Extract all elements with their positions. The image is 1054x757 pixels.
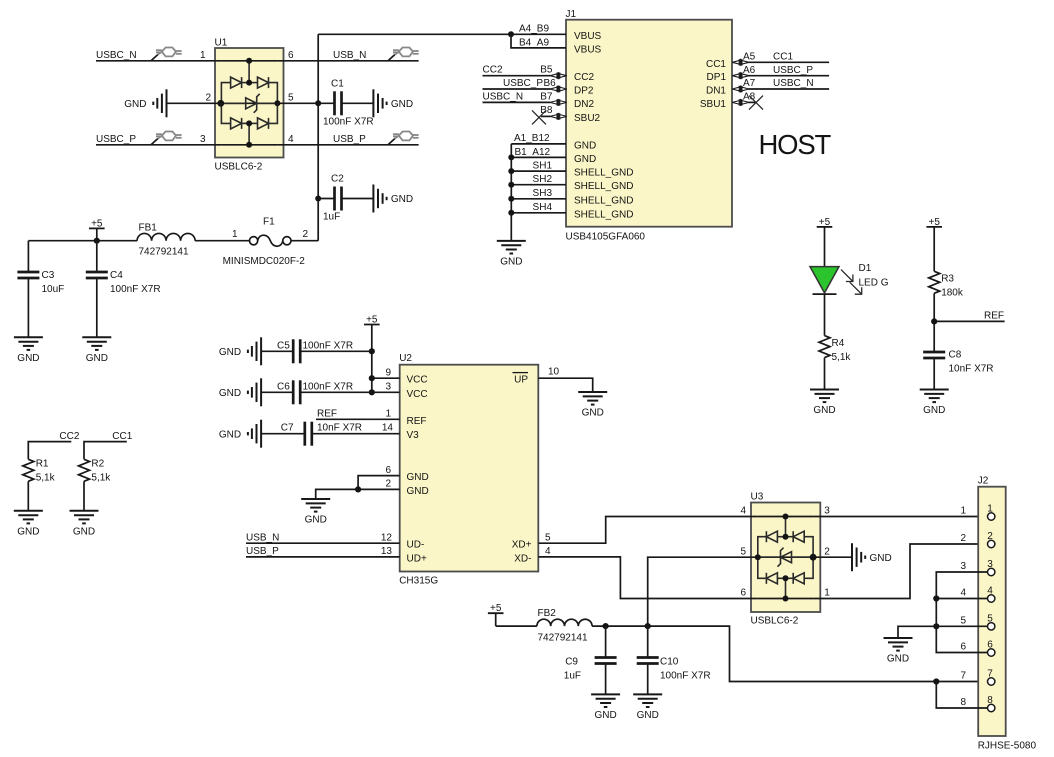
junction dots on filter rail [603, 623, 651, 629]
svg-text:2: 2 [303, 229, 309, 240]
svg-text:UP: UP [514, 375, 528, 386]
U3 diode top-left [766, 531, 777, 542]
svg-text:USB_N: USB_N [333, 50, 366, 61]
ground at C8 [920, 390, 949, 417]
svg-text:5,1k: 5,1k [832, 352, 852, 363]
svg-text:B1_A12: B1_A12 [515, 147, 551, 158]
capacitor C10 [637, 626, 711, 694]
J2 outer pin numbers [960, 506, 966, 709]
svg-text:4: 4 [987, 586, 993, 597]
svg-text:6: 6 [385, 465, 391, 476]
wire U3 pin 5 to filter node [648, 557, 758, 626]
wire FB1 to F1 [195, 240, 249, 242]
ground at U2 GND pins [301, 499, 330, 526]
wire SH4 to J1 [511, 202, 566, 213]
svg-text:1uF: 1uF [564, 670, 581, 681]
twisted-pair symbol on USB_P [388, 132, 419, 145]
ic U2 body [399, 353, 538, 587]
U1 internal top rail wire [221, 60, 277, 62]
svg-text:XD+: XD+ [512, 540, 532, 551]
wire SH1 to J1 [511, 160, 566, 171]
svg-text:3: 3 [960, 561, 966, 572]
wire net USBC_P to U1 pin 3 [96, 134, 221, 145]
wire net REF to U2 pin 1 [316, 409, 400, 420]
svg-text:SH3: SH3 [533, 188, 553, 199]
svg-text:R2: R2 [91, 459, 104, 470]
svg-text:CC2: CC2 [59, 431, 79, 442]
wire SH2 to J1 [511, 174, 566, 185]
svg-text:A1_B12: A1_B12 [514, 133, 550, 144]
wire U1 pin 5 to node [277, 93, 318, 104]
svg-text:6: 6 [987, 640, 993, 651]
capacitor C1 [318, 79, 373, 128]
pin arrow B6 [550, 86, 567, 93]
no-connect stub J1 pin B8 [540, 105, 553, 116]
svg-text:CH315G: CH315G [399, 576, 438, 587]
wire net CC1 from J1 pin A5 [743, 52, 829, 63]
svg-text:C4: C4 [110, 270, 123, 281]
svg-text:3: 3 [200, 134, 206, 145]
wire U3 pin 2 to ground [813, 556, 852, 558]
svg-text:CC1: CC1 [773, 52, 793, 63]
wire net A4_B9 to J1 VBUS pin 1 [318, 24, 566, 35]
svg-text:8: 8 [960, 697, 966, 708]
svg-text:10: 10 [548, 367, 560, 378]
resistor R4 [819, 336, 851, 390]
pin arrow B8 [550, 113, 567, 120]
svg-text:VCC: VCC [407, 375, 428, 386]
svg-text:A4_B9: A4_B9 [519, 24, 549, 35]
svg-text:6: 6 [740, 588, 746, 599]
svg-text:742792141: 742792141 [139, 247, 189, 258]
svg-text:742792141: 742792141 [538, 633, 588, 644]
svg-text:USBC_N: USBC_N [96, 50, 137, 61]
svg-text:C7: C7 [281, 423, 294, 434]
wire +5 to U2 pin 3 [372, 382, 400, 393]
svg-text:1: 1 [200, 50, 206, 61]
no-connect cross A8 [749, 96, 763, 110]
svg-text:100nF X7R: 100nF X7R [323, 117, 374, 128]
svg-text:5: 5 [740, 546, 746, 557]
svg-text:DN1: DN1 [706, 86, 726, 97]
svg-text:VBUS: VBUS [574, 44, 602, 55]
svg-text:CC1: CC1 [112, 431, 132, 442]
supply +5 at R3 [926, 217, 942, 271]
pin arrow A5 [732, 59, 749, 66]
svg-text:C8: C8 [949, 350, 962, 361]
supply +5 at input rail [89, 218, 105, 241]
no-connect stub J1 pin A8 [743, 92, 756, 103]
svg-text:6: 6 [960, 642, 966, 653]
U1 zener diode [246, 94, 260, 113]
svg-text:B4_A9: B4_A9 [519, 37, 549, 48]
U3 pin numbers [740, 506, 830, 599]
twisted-pair symbol on USB_N [388, 48, 419, 61]
svg-text:USBLC6-2: USBLC6-2 [751, 616, 799, 627]
shield bus vertical wire [510, 144, 512, 240]
U3 internal mid rail wire [758, 556, 813, 558]
svg-text:USB_P: USB_P [333, 134, 366, 145]
svg-text:UD+: UD+ [407, 553, 427, 564]
svg-text:2: 2 [960, 533, 966, 544]
U1 diode bottom-left [231, 118, 242, 129]
svg-text:13: 13 [381, 546, 393, 557]
svg-text:R3: R3 [941, 274, 954, 285]
svg-text:6: 6 [288, 50, 294, 61]
junction dot rail [94, 238, 100, 244]
svg-text:USBLC6-2: USBLC6-2 [215, 162, 263, 173]
J1 right pin names [700, 59, 727, 110]
junction dots J2 bus [933, 595, 939, 684]
svg-text:5: 5 [987, 613, 993, 624]
svg-text:3: 3 [824, 506, 830, 517]
svg-text:HOST: HOST [759, 129, 832, 160]
svg-text:4: 4 [960, 588, 966, 599]
ferrite bead FB2 742792141 [537, 608, 592, 643]
LED D1 LED G [810, 263, 889, 294]
ic J1 body [566, 9, 733, 243]
junction dot C1 node [315, 100, 321, 106]
pin arrow B7 [550, 99, 567, 106]
ic U3 body [751, 492, 821, 627]
wire +5 input rail [28, 240, 137, 242]
ground at U3 pin 2 [852, 543, 892, 571]
svg-text:USB_P: USB_P [246, 546, 279, 557]
supply +5 at D1 [817, 217, 833, 267]
svg-text:SHELL_GND: SHELL_GND [574, 168, 633, 179]
wire net USB_N to U2 pin 12 [246, 532, 400, 543]
svg-text:DP2: DP2 [574, 86, 594, 97]
svg-text:1: 1 [824, 588, 830, 599]
supply +5 at U2 [364, 315, 380, 393]
ground at R2 [70, 511, 99, 538]
svg-text:2: 2 [205, 93, 211, 104]
svg-text:SH2: SH2 [533, 174, 553, 185]
pin arrow B5 [550, 72, 567, 79]
svg-text:7: 7 [987, 669, 993, 680]
svg-text:B5: B5 [540, 65, 553, 76]
U1 internal mid rail wire [221, 102, 277, 104]
svg-text:SBU2: SBU2 [574, 113, 601, 124]
svg-text:RJHSE-5080: RJHSE-5080 [978, 741, 1037, 752]
svg-text:5: 5 [545, 532, 551, 543]
capacitor C2 [318, 174, 373, 223]
svg-text:CC2: CC2 [483, 65, 503, 76]
junction dot A4_B9 [508, 31, 514, 37]
no-connect cross B8 [532, 110, 546, 124]
wire net USBC_N to U1 pin 1 [96, 50, 221, 61]
svg-text:UD-: UD- [407, 540, 425, 551]
node VBUS vertical wire [317, 34, 319, 240]
capacitor C5 [219, 337, 372, 365]
capacitor C3 [17, 241, 64, 338]
svg-text:USBC_N: USBC_N [773, 78, 814, 89]
connector J2 body [978, 476, 1037, 752]
svg-text:10nF X7R: 10nF X7R [317, 423, 362, 434]
svg-text:1: 1 [232, 229, 238, 240]
svg-text:3: 3 [987, 559, 993, 570]
wire +5 to U2 pin 9 [372, 367, 400, 378]
svg-text:U1: U1 [215, 38, 228, 49]
svg-text:SH1: SH1 [533, 160, 553, 171]
svg-text:VCC: VCC [407, 389, 428, 400]
ground at U1 pin 2 [124, 89, 221, 117]
twisted-pair symbol on USBC_P [151, 132, 182, 145]
svg-text:F1: F1 [263, 216, 275, 227]
svg-text:9: 9 [385, 367, 391, 378]
pin arrow A8 [732, 99, 749, 106]
pin arrow A6 [732, 72, 749, 79]
svg-text:GND: GND [574, 140, 596, 151]
svg-text:5,1k: 5,1k [91, 473, 111, 484]
wire net USBC_N to J1 pin B7 [483, 91, 553, 102]
svg-text:14: 14 [382, 423, 394, 434]
wire D1 to R4 [824, 294, 826, 336]
resistor R3 [929, 271, 964, 352]
svg-text:SBU1: SBU1 [700, 99, 727, 110]
svg-text:SHELL_GND: SHELL_GND [574, 181, 633, 192]
svg-text:REF: REF [407, 416, 427, 427]
U1 diode top-right [258, 77, 269, 88]
wire net REF from R3/C8 node [934, 311, 1004, 322]
svg-text:DN2: DN2 [574, 99, 594, 110]
U3 junction dots [755, 514, 817, 602]
svg-text:12: 12 [381, 532, 393, 543]
svg-text:LED G: LED G [859, 278, 889, 289]
wire +5 to FB2 [496, 625, 537, 627]
wire net USB_P to U2 pin 13 [246, 546, 400, 557]
svg-text:REF: REF [984, 311, 1004, 322]
svg-text:1: 1 [385, 409, 391, 420]
svg-text:1: 1 [960, 506, 966, 517]
svg-text:U2: U2 [399, 353, 412, 364]
svg-text:4: 4 [288, 134, 294, 145]
svg-text:C9: C9 [565, 656, 578, 667]
wire SH3 to J1 [511, 188, 566, 199]
svg-text:XD-: XD- [514, 553, 531, 564]
ground at J2 bus [884, 638, 913, 665]
U2 right pin names [512, 373, 532, 565]
svg-text:CC2: CC2 [574, 72, 594, 83]
svg-text:USBC_P: USBC_P [773, 65, 813, 76]
resistor R1 with CC2 stub [23, 431, 80, 511]
svg-text:100nF X7R: 100nF X7R [660, 670, 711, 681]
svg-text:7: 7 [960, 671, 966, 682]
wire net USBC_P from J1 pin A6 [743, 65, 829, 76]
wire U2 pin 10 to ground [538, 367, 592, 392]
svg-text:180k: 180k [941, 288, 964, 299]
svg-text:C3: C3 [42, 270, 55, 281]
svg-text:GND: GND [407, 486, 429, 497]
svg-text:8: 8 [987, 695, 993, 706]
svg-text:5: 5 [960, 615, 966, 626]
J2 pins 3-6 bus wires [936, 572, 987, 653]
wire J2 pin 8 [936, 682, 987, 709]
wire net USBC_P to J1 pin B6 [483, 78, 557, 89]
svg-text:CC1: CC1 [706, 59, 726, 70]
svg-text:2: 2 [987, 531, 993, 542]
U1 internal bottom rail wire [221, 144, 277, 146]
ic U1 body [215, 38, 284, 173]
svg-text:SHELL_GND: SHELL_GND [574, 209, 633, 220]
ground at U2 pin 10 [578, 392, 607, 419]
U3 diode bottom-right [793, 573, 804, 584]
wire net CC2 to J1 pin B5 [483, 65, 553, 76]
svg-text:100nF X7R: 100nF X7R [110, 284, 161, 295]
shield bus junction dots [508, 154, 514, 215]
wire F1 to VBUS node [291, 240, 318, 242]
svg-text:USBC_P: USBC_P [96, 134, 136, 145]
svg-text:MINISMDC020F-2: MINISMDC020F-2 [223, 256, 306, 267]
ground at C3 [14, 337, 43, 364]
wire U2 XD- pin 4 to U3 pin 6 row [538, 546, 758, 598]
J2 pin circles [988, 513, 995, 712]
svg-text:SHELL_GND: SHELL_GND [574, 195, 633, 206]
capacitor C6 [219, 378, 372, 406]
wire net B4_A9 to J1 VBUS pin 2 [511, 34, 566, 48]
resistor R2 with CC1 stub [79, 431, 133, 511]
ground at R4 [810, 390, 839, 417]
junction dots +5 vertical [369, 348, 375, 395]
wire net USBC_N from J1 pin A7 [743, 78, 829, 89]
svg-text:REF: REF [317, 409, 337, 420]
svg-text:SH4: SH4 [533, 202, 553, 213]
svg-text:U3: U3 [751, 492, 764, 503]
J1 left pin names [574, 31, 633, 221]
svg-text:4: 4 [545, 546, 551, 557]
wire U3 pin 3 to J2 pin 1 [813, 516, 988, 518]
svg-text:10nF X7R: 10nF X7R [949, 364, 994, 375]
svg-text:GND: GND [407, 472, 429, 483]
U1 internal frame [221, 61, 277, 145]
capacitor C4 [86, 241, 161, 338]
svg-text:100nF X7R: 100nF X7R [303, 340, 354, 351]
svg-text:R1: R1 [36, 459, 49, 470]
svg-text:VBUS: VBUS [574, 31, 602, 42]
ground at R1 [14, 511, 43, 538]
wire J2 bus to ground [898, 626, 936, 638]
wire U3 pin 1 to J2 pin 2 [813, 544, 988, 599]
U3 internal bottom rail wire [758, 598, 813, 600]
capacitor C8 [923, 350, 993, 390]
svg-text:C10: C10 [660, 656, 679, 667]
svg-text:J2: J2 [978, 476, 989, 487]
fuse F1 MINISMDC020F-2 [223, 216, 309, 267]
svg-text:FB2: FB2 [538, 608, 557, 619]
svg-text:2: 2 [385, 479, 391, 490]
ground at C10 [633, 694, 662, 721]
ferrite bead FB1 742792141 [137, 223, 195, 258]
svg-text:1uF: 1uF [323, 212, 340, 223]
U3 diode top-right [793, 531, 804, 542]
svg-text:USBC_N: USBC_N [483, 91, 524, 102]
wire net USB_N from U1 pin 6 [277, 50, 418, 61]
U2 left pin names [407, 375, 429, 565]
svg-text:5: 5 [288, 93, 294, 104]
capacitor C7 to U2 pin 14 [219, 420, 400, 448]
U1 junction dots [217, 58, 280, 148]
U3 zener diode [778, 548, 792, 567]
svg-text:C6: C6 [277, 381, 290, 392]
U3 diode bottom-left [766, 573, 777, 584]
ground at C1 [373, 89, 413, 117]
svg-text:J1: J1 [566, 9, 577, 20]
LED emission arrows [841, 270, 862, 295]
svg-text:4: 4 [740, 506, 746, 517]
junction dot REF node [931, 318, 937, 324]
svg-text:D1: D1 [859, 263, 872, 274]
wire net USB_P from U1 pin 4 [277, 134, 418, 145]
J2 inner pin numbers [987, 504, 993, 707]
U1 diode top-left [231, 77, 242, 88]
wire U2 pin 2 GND [316, 479, 400, 499]
ground at C4 [82, 337, 111, 364]
svg-text:USB4105GFA060: USB4105GFA060 [566, 232, 646, 243]
svg-text:DP1: DP1 [707, 72, 727, 83]
capacitor C9 [564, 626, 617, 694]
svg-text:C2: C2 [331, 174, 344, 185]
supply +5 at FB2 [488, 603, 504, 626]
svg-text:V3: V3 [407, 430, 420, 441]
U3 internal top rail wire [758, 516, 813, 518]
svg-text:R4: R4 [832, 338, 845, 349]
svg-text:B7: B7 [540, 91, 553, 102]
svg-text:10uF: 10uF [42, 284, 65, 295]
svg-text:FB1: FB1 [139, 223, 158, 234]
pin arrow A7 [732, 86, 749, 93]
junction dot C2 node [315, 196, 321, 202]
svg-text:C1: C1 [331, 79, 344, 90]
svg-text:GND: GND [574, 154, 596, 165]
svg-text:3: 3 [385, 382, 391, 393]
ground at shield bus [497, 241, 526, 268]
svg-text:USB_N: USB_N [246, 532, 279, 543]
U3 internal frame [758, 517, 813, 599]
svg-text:1: 1 [987, 504, 993, 515]
svg-text:2: 2 [824, 546, 830, 557]
ground at C2 [373, 185, 413, 213]
wire U2 pin 6 GND [358, 465, 400, 490]
junction dot GND pins [355, 486, 361, 492]
wire FB2 to J2 pin 7 [592, 626, 988, 681]
twisted-pair symbol on USBC_N [151, 48, 182, 61]
wire U2 XD+ pin 5 to U3 pin 4 row [538, 517, 758, 544]
svg-text:USBC_P: USBC_P [503, 78, 543, 89]
U1 diode bottom-right [258, 118, 269, 129]
svg-text:5,1k: 5,1k [36, 473, 56, 484]
wire net A1_B12 to J1 GND pin [511, 133, 566, 144]
wire net B1_A12 to J1 GND pin [511, 147, 566, 158]
svg-text:100nF X7R: 100nF X7R [303, 381, 354, 392]
ground at C9 [591, 694, 620, 721]
svg-text:C5: C5 [277, 340, 290, 351]
